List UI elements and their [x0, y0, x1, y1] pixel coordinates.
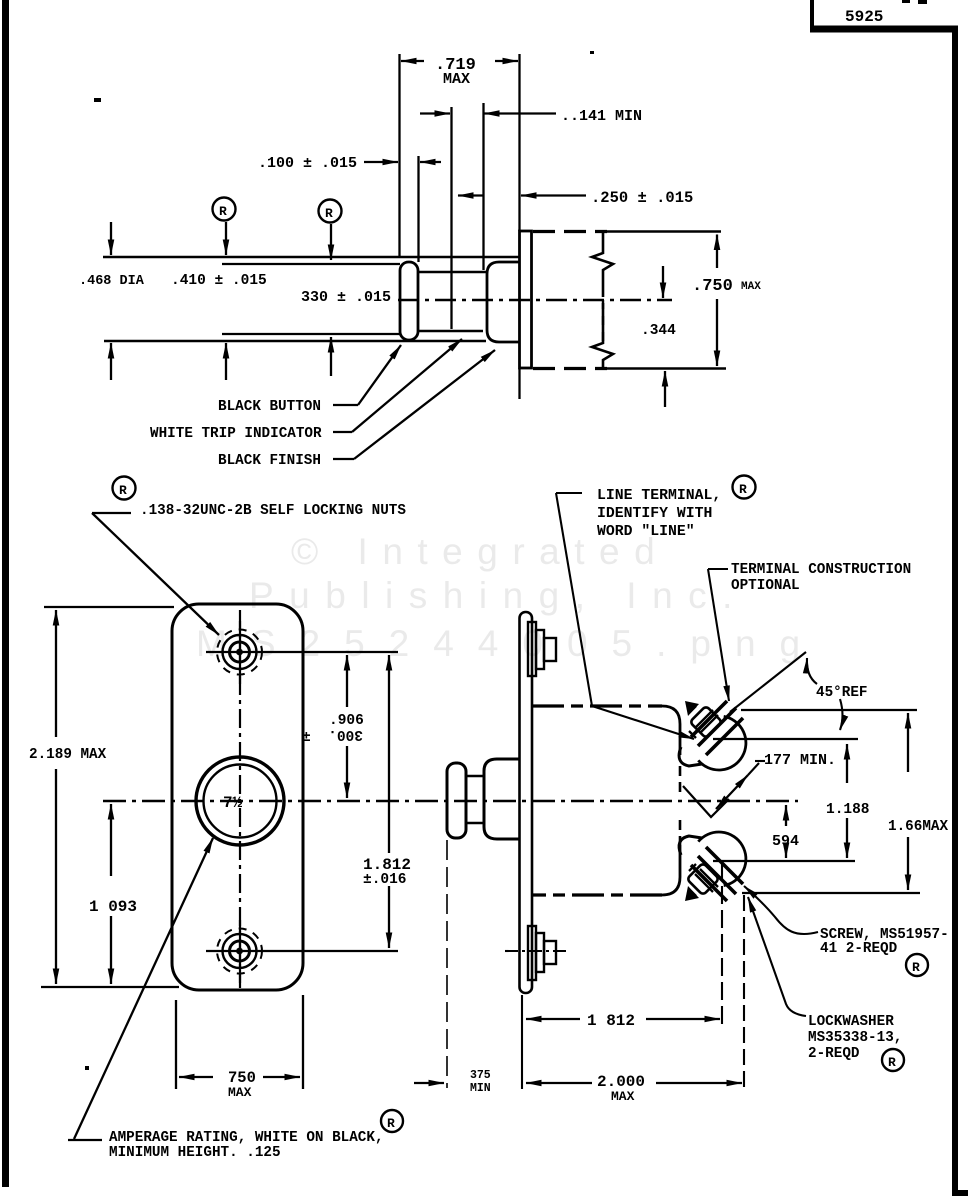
svg-text:.410 ± .015: .410 ± .015: [171, 273, 267, 289]
lower terminal lug hook: [679, 836, 702, 855]
dia .410 upper arrow: [225, 222, 227, 255]
breaker body top edge solid: [603, 230, 721, 233]
dim 1.812 upper stub: [388, 655, 390, 853]
dim .250 text: [591, 189, 693, 207]
bushing barrel top line: [418, 271, 487, 274]
upper terminal screw slot: [695, 710, 718, 733]
top panel nut body: [536, 630, 544, 669]
dim 750 right extension line: [302, 995, 304, 1089]
lower terminal lug arc: [698, 832, 746, 886]
svg-text:R: R: [325, 206, 333, 221]
bottom mounting hole horizontal line: [206, 950, 398, 952]
label terminal construction: [731, 562, 911, 594]
dim .375 text: [470, 1069, 491, 1095]
dim 1.66 upper stub: [907, 713, 909, 772]
dia .468 text: [79, 274, 145, 289]
dim .594 upper stub: [785, 805, 787, 826]
bottom mounting hole outer circle: [223, 934, 257, 968]
side button base: [484, 759, 520, 839]
dim 750 right arrow: [263, 1076, 300, 1078]
mounting flange: [520, 231, 532, 368]
dim .750 MAX upper arrow stub: [716, 235, 718, 269]
leader white trip indicator: [333, 339, 462, 432]
reference line upper terminal: [713, 738, 858, 740]
top view: inner top line: [222, 263, 400, 265]
top mounting hole outer circle: [223, 635, 257, 669]
label lockwasher: [808, 1014, 902, 1062]
reference line bottom: [742, 892, 920, 894]
label line terminal: [597, 488, 721, 540]
page left border: [2, 0, 9, 1187]
breaker body top edge: [532, 704, 662, 707]
svg-text:TERMINAL CONSTRUCTION: TERMINAL CONSTRUCTION: [731, 562, 911, 578]
lower terminal screw slot: [695, 869, 718, 892]
svg-text:MAX: MAX: [443, 71, 470, 88]
dim .141 MIN left arrow: [420, 112, 450, 114]
breaker body right edge dashed upper: [679, 766, 682, 796]
top view: breaker bushing outline top line: [103, 256, 519, 259]
top panel nut end: [544, 638, 556, 661]
bottom hole vertical line: [239, 920, 241, 983]
dia .330 lower arrow: [330, 337, 332, 376]
svg-text:R: R: [739, 482, 747, 497]
lower terminal washer stack: [691, 847, 743, 901]
label amperage rating: [109, 1130, 384, 1161]
body break dashed vertical: [602, 300, 604, 341]
dim 2.000 text: [597, 1073, 645, 1104]
dim .100 text: [258, 155, 357, 172]
extension line button face: [446, 840, 448, 1088]
speck left of front view: [85, 1066, 89, 1070]
svg-text:41 2-REQD: 41 2-REQD: [820, 941, 898, 957]
dim 1.66 lower stub: [907, 837, 909, 890]
bottom panel nut washer: [528, 926, 536, 980]
breaker body bottom right corner: [662, 845, 680, 895]
svg-text:R: R: [888, 1055, 896, 1070]
dim .250 right arrow with tail: [521, 194, 586, 196]
svg-text:MAX: MAX: [611, 1089, 635, 1104]
extension line lug edge: [743, 895, 745, 1090]
watermark line 3: [196, 625, 824, 662]
dim .594 text: [772, 833, 799, 850]
45 ref leader to line: [840, 699, 843, 730]
bottom mounting hole inner circle: [230, 941, 250, 961]
dim .719 MAX text: [435, 56, 476, 88]
dim .375 arrow: [414, 1082, 444, 1084]
svg-text:45°REF: 45°REF: [816, 685, 867, 701]
extension line L5 above flange: [518, 54, 520, 231]
svg-text:1.66MAX: 1.66MAX: [888, 819, 948, 835]
circled R line terminal: [733, 476, 756, 499]
dim 750 left extension line: [175, 1000, 177, 1089]
watermark line 2: [249, 577, 748, 614]
dia .330 upper arrow: [330, 224, 332, 260]
svg-text:WHITE TRIP INDICATOR: WHITE TRIP INDICATOR: [150, 426, 322, 442]
svg-text:375: 375: [470, 1069, 491, 1082]
svg-text:±: ±: [302, 730, 311, 746]
45 ref leader to diagonal: [807, 658, 817, 684]
dim 1.188 lower stub: [846, 818, 848, 858]
dim 1.812 side left arrow: [526, 1018, 580, 1020]
breaker body bottom edge solid: [603, 367, 726, 370]
body break line lower zigzag: [592, 303, 613, 368]
bottom mounting hole center dot: [236, 948, 243, 955]
top hole vertical line: [239, 621, 241, 684]
main horizontal centerline: [103, 800, 798, 802]
main button hole outer circle: [196, 757, 284, 845]
svg-text:LOCKWASHER: LOCKWASHER: [808, 1014, 894, 1030]
breaker body bottom edge dashed: [533, 367, 607, 370]
upper terminal lug hook: [679, 747, 702, 766]
svg-text:2.189 MAX: 2.189 MAX: [29, 747, 107, 763]
side button cap: [447, 763, 466, 838]
breaker body top right corner: [662, 706, 680, 755]
upper terminal screw head: [690, 706, 723, 739]
extension line screw tip: [721, 862, 723, 1026]
circled R screw: [906, 954, 928, 976]
upper screw tip: [685, 701, 699, 716]
side button neck top: [466, 775, 484, 778]
top view: inner bottom line: [222, 333, 400, 335]
svg-text:IDENTIFY WITH: IDENTIFY WITH: [597, 506, 712, 522]
dim 2.000 left arrow: [526, 1082, 592, 1084]
leader black finish: [333, 350, 495, 459]
reference line lower terminal: [713, 860, 855, 862]
dia .410 text: [171, 273, 267, 289]
svg-text:.468 DIA: .468 DIA: [79, 274, 145, 289]
top mounting hole center dot: [236, 649, 243, 656]
svg-text:594: 594: [772, 833, 799, 850]
extension line L2: [417, 156, 419, 262]
leader black button: [333, 345, 401, 405]
label white trip indicator: [150, 426, 322, 442]
svg-text:R: R: [119, 483, 127, 498]
upper terminal screw ticks: [689, 706, 696, 738]
leader self locking nuts: [92, 513, 219, 635]
svg-text:..141 MIN: ..141 MIN: [561, 108, 642, 125]
svg-text:MINIMUM HEIGHT. .125: MINIMUM HEIGHT. .125: [109, 1145, 281, 1161]
lower screw tip: [685, 886, 699, 901]
dim 1.66 text: [888, 819, 948, 835]
speck near top center: [590, 51, 594, 54]
dia .410 lower arrow: [225, 343, 227, 380]
extension line panel face: [521, 995, 523, 1089]
label screw: [820, 927, 949, 957]
dim .906 text: [302, 713, 364, 746]
svg-text:R: R: [912, 960, 920, 975]
upper terminal lug arc: [698, 716, 746, 770]
dia .330 text: [301, 289, 391, 306]
mounting panel side view: [520, 612, 533, 993]
reference line top: [741, 709, 917, 711]
bottom panel nut body: [536, 933, 544, 972]
extension line L1: [398, 54, 400, 258]
dim .594 lower stub: [785, 845, 787, 858]
bottom nut centerline: [505, 950, 566, 952]
label 45 REF: [816, 685, 867, 701]
dim 2.189 upper stub: [55, 610, 57, 737]
dim .750 MAX lower arrow stub: [716, 299, 718, 366]
main button hole inner circle: [204, 765, 277, 838]
circled R self locking nuts: [113, 477, 136, 500]
dim .141 MIN text: [561, 108, 642, 125]
front plate vertical centerline: [239, 610, 241, 988]
body break line upper zigzag: [592, 232, 613, 297]
lower terminal screw ticks: [689, 864, 696, 896]
svg-text:.344: .344: [641, 323, 676, 339]
dim 2.189 lower stub: [55, 769, 57, 984]
leader terminal construction: [708, 569, 729, 701]
dia .468 lower arrow: [110, 343, 112, 380]
flange lower extension stub: [518, 368, 520, 399]
svg-text:330 ± .015: 330 ± .015: [301, 289, 391, 306]
svg-text:1 093: 1 093: [89, 898, 137, 916]
svg-text:BLACK FINISH: BLACK FINISH: [218, 453, 321, 469]
svg-text:R: R: [219, 204, 227, 219]
45 degree reference diagonal: [730, 652, 806, 712]
svg-text:5925: 5925: [845, 8, 883, 26]
svg-text:R: R: [387, 1116, 395, 1131]
svg-text:LINE TERMINAL,: LINE TERMINAL,: [597, 488, 721, 504]
svg-text:7½: 7½: [223, 794, 243, 812]
dim 750 text: [228, 1069, 256, 1100]
label 177 MIN: [764, 752, 836, 769]
dim 1.093 text: [89, 898, 137, 916]
bushing barrel bottom line: [418, 330, 483, 333]
dim 1.812 text: [363, 856, 411, 888]
top mounting hole dashed circle: [217, 630, 262, 675]
top mounting hole horizontal line: [206, 651, 398, 653]
dim .177 arrow: [716, 775, 748, 809]
dim 2.189 top extension line: [44, 606, 174, 608]
page right border: [955, 29, 968, 1193]
breaker body right edge dashed lower: [679, 820, 682, 845]
black button (pill): [400, 262, 418, 340]
top panel nut washer: [528, 622, 536, 676]
dim 2.189 text: [29, 747, 107, 763]
dim .719 MAX left arrow: [401, 60, 424, 62]
dim 1.812 side text: [587, 1012, 635, 1030]
extension line L4: [482, 103, 484, 270]
label black button: [218, 399, 321, 415]
dim .177 leader: [748, 761, 765, 775]
top mounting hole inner circle: [230, 642, 250, 662]
leader screw: [744, 886, 818, 934]
dim 1.188 upper stub: [846, 744, 848, 783]
svg-text:WORD "LINE": WORD "LINE": [597, 524, 695, 540]
leader amperage rating: [68, 838, 213, 1140]
dia .468 upper arrow: [110, 222, 112, 255]
circled R amperage: [381, 1110, 403, 1132]
svg-text:1.188: 1.188: [826, 802, 870, 818]
circled R lockwasher: [882, 1049, 904, 1071]
dim 2.000 right arrow: [656, 1082, 742, 1084]
dim .141 MIN right arrow with tail: [484, 112, 556, 114]
svg-text:1 812: 1 812: [587, 1012, 635, 1030]
svg-text:MIN: MIN: [470, 1082, 491, 1095]
svg-text:MAX: MAX: [228, 1085, 252, 1100]
title block box: [810, 0, 814, 29]
dim .100 left arrow: [364, 161, 398, 163]
svg-text:.250 ± .015: .250 ± .015: [591, 189, 693, 207]
svg-text:MAX: MAX: [741, 281, 761, 293]
dim .719 MAX right arrow: [495, 60, 518, 62]
dim 1.812 side right arrow: [646, 1018, 720, 1020]
leader lockwasher: [748, 897, 806, 1016]
upper terminal washer stack: [691, 701, 743, 755]
circled R above dia dims 1: [213, 198, 236, 221]
dim .344 lower arrow: [664, 371, 666, 407]
dim .344 upper arrow: [662, 266, 664, 298]
top view: bottom outline line: [104, 340, 486, 343]
svg-text:±.016: ±.016: [363, 872, 407, 888]
dim 1.188 text: [826, 802, 870, 818]
side button neck bottom: [466, 822, 484, 825]
svg-text:.750: .750: [692, 277, 733, 296]
dim 750 left arrow: [179, 1076, 213, 1078]
svg-text:300.: 300.: [328, 726, 363, 742]
dim .100 right arrow: [420, 161, 441, 163]
watermark line 1: [291, 533, 669, 570]
dim 1.812 lower stub: [388, 886, 390, 948]
dim .344 text: [641, 323, 676, 339]
svg-text:MS35338-13,: MS35338-13,: [808, 1030, 902, 1046]
svg-text:AMPERAGE RATING, WHITE ON BLAC: AMPERAGE RATING, WHITE ON BLACK,: [109, 1130, 384, 1146]
breaker body top edge dashed: [533, 230, 607, 233]
svg-text:177 MIN.: 177 MIN.: [764, 752, 836, 769]
label self locking nuts: [140, 503, 406, 519]
dim .177 notch: [683, 786, 729, 817]
extension line L3: [450, 107, 452, 329]
dim 2.189 bottom extension line: [41, 986, 179, 988]
bottom panel nut end: [544, 941, 556, 964]
dim 1.093 line: [110, 804, 112, 984]
breaker body bottom edge: [532, 893, 662, 896]
dim .250 left arrow: [458, 194, 483, 196]
svg-text:.138-32UNC-2B SELF LOCKING NU: .138-32UNC-2B SELF LOCKING NUTS: [140, 503, 406, 519]
svg-text:OPTIONAL: OPTIONAL: [731, 578, 800, 594]
title block cut-off marks: [902, 0, 910, 3]
svg-text:BLACK BUTTON: BLACK BUTTON: [218, 399, 321, 415]
front plate rounded rectangle: [172, 604, 303, 990]
dim .906 upper stub: [346, 655, 348, 707]
bottom mounting hole dashed circle: [217, 929, 262, 974]
speck top-left: [94, 98, 101, 102]
circled R above dia dims 2: [319, 200, 342, 223]
leader line terminal: [556, 493, 694, 739]
dim .750 MAX text: [692, 277, 761, 296]
lower terminal screw head: [687, 863, 720, 896]
amperage marking 7 1/2: [223, 794, 243, 812]
bushing collar rounded body: [487, 262, 520, 342]
label black finish: [218, 453, 321, 469]
svg-text:2-REQD: 2-REQD: [808, 1046, 860, 1062]
svg-text:.100 ± .015: .100 ± .015: [258, 155, 357, 172]
top view centerline: [398, 299, 672, 301]
dim .906 lower stub: [346, 746, 348, 798]
